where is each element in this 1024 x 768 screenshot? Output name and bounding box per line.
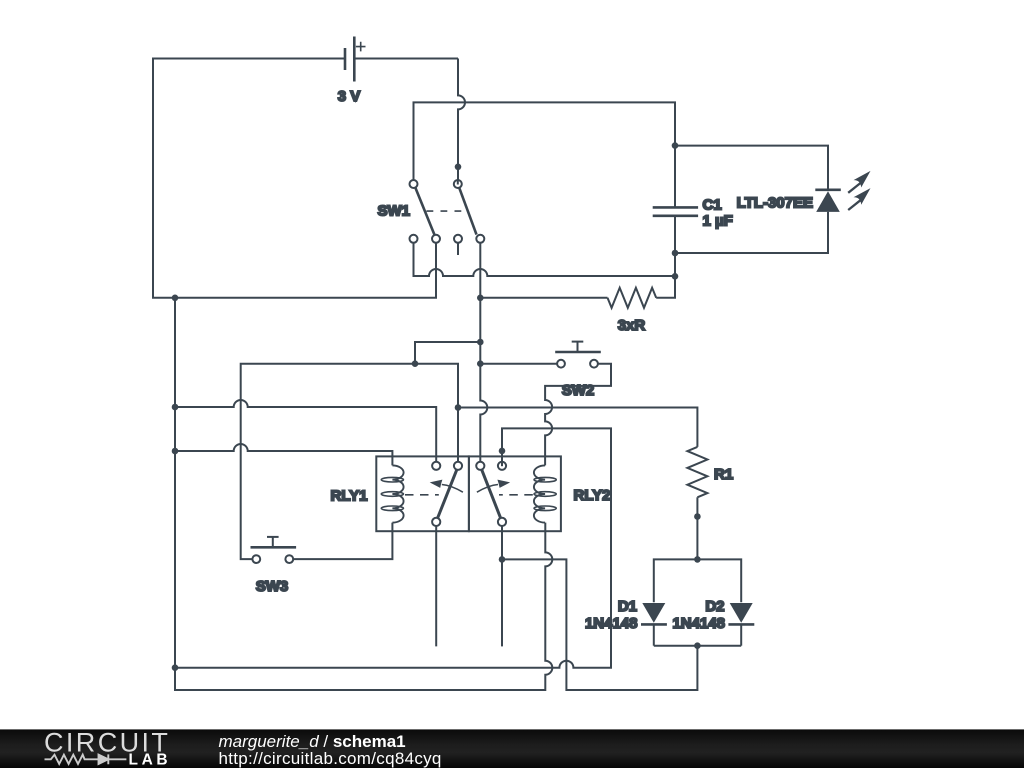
relay RLY1 box — [376, 456, 469, 531]
node dot SW1 throw1 net / resistor lead — [672, 273, 679, 280]
wire R1 feed from net dot — [458, 408, 697, 447]
wire RLY1 bottom contact stub — [435, 526, 437, 647]
wire C1 top to LED top — [675, 146, 828, 189]
svg-text:http://circuitlab.com/cq84cyq: http://circuitlab.com/cq84cyq — [219, 749, 442, 768]
logo resistor zigzag — [45, 755, 99, 764]
wire net B to SW2 left — [480, 363, 557, 365]
node dot R1 feed junction — [455, 404, 462, 411]
switch SW2 (pushbutton) — [555, 342, 601, 368]
svg-text:1 µF: 1 µF — [703, 213, 733, 230]
wire bottom net from left rail to RLY2 contact2 top (hop over x566.4) — [175, 428, 611, 667]
svg-text:RLY2: RLY2 — [574, 487, 611, 504]
relay RLY1 contacts — [405, 462, 463, 526]
wire LED bottom to C1 bottom — [675, 212, 828, 253]
diode D2 1N4148 — [728, 603, 754, 646]
wire battery down to SW1 right pole (hop over y101) — [458, 59, 465, 181]
node dot at SW2 feed junction — [477, 360, 484, 367]
wire left rail to RLY1 contact1 (hop over x240.7) — [175, 400, 436, 462]
wire SW3 right to RLY1 coil bottom — [293, 523, 392, 560]
switch SW1 (DPDT) — [410, 180, 485, 243]
wire RLY2 bottom contact stub — [501, 526, 503, 647]
node dot RLY2 contact2 junction — [499, 448, 506, 455]
svg-text:SW1: SW1 — [377, 203, 410, 220]
wire diode pair frame top — [654, 559, 741, 602]
node dot left rail / bottom net — [172, 664, 179, 671]
wire SW1 throw4 down to RLY2 contact (net B) — [480, 243, 487, 462]
node dot left rail / RLY1 contact feed — [172, 404, 179, 411]
svg-text:RLY1: RLY1 — [331, 488, 368, 505]
svg-text:LAB: LAB — [129, 752, 172, 768]
node dot below R1 — [694, 513, 701, 520]
diode D1 1N4148 — [641, 603, 667, 646]
node dot C1 top / LED net — [672, 142, 679, 149]
node dot diode pair top — [694, 556, 701, 563]
node dot left rail / battery return — [172, 295, 179, 302]
relay RLY2 coil — [534, 465, 556, 522]
wire SW2 right down to RLY2 coil top (hops over y407,y428.5) — [545, 364, 611, 466]
LED LTL-307EE — [815, 171, 870, 253]
relay RLY2 box — [469, 456, 561, 531]
resistor R1 — [687, 447, 707, 560]
svg-text:3 V: 3 V — [338, 88, 361, 105]
wire left rail: battery minus junction down to bottom left and to RLY2 coil bottom — [175, 298, 552, 690]
relay RLY1 coil — [381, 465, 403, 522]
node dot on battery wire — [455, 164, 462, 171]
svg-text:LTL-307EE: LTL-307EE — [737, 195, 813, 212]
svg-text:D2: D2 — [705, 598, 724, 615]
wire SW1 throw1 down and right to C1 bottom net (hops over x436,x480) — [414, 243, 676, 277]
node dot diode pair bottom — [694, 642, 701, 649]
node dot C1 bottom / LED return — [672, 250, 679, 257]
svg-text:SW2: SW2 — [562, 382, 595, 399]
wire battery left loop to SW1 throw2 — [153, 59, 436, 298]
wire left rail to RLY1 coil top (hop over x240.7) — [175, 444, 392, 465]
wire SW1 throw3 stub — [457, 242, 459, 255]
wire link net B upper — [415, 342, 480, 364]
node dot link wire lower junction — [412, 360, 419, 367]
node dot RLY2 bottom contact junction — [499, 556, 506, 563]
svg-text:SW3: SW3 — [256, 578, 289, 595]
node dot at link wire junction — [477, 339, 484, 346]
capacitor C1 1uF — [653, 146, 698, 216]
node dot at resistor 3xR left lead junction — [477, 295, 484, 302]
wire diode pair frame bottom and return to RLY2 contact bottom — [502, 559, 741, 690]
node dot left rail / RLY1 coil feed — [172, 448, 179, 455]
svg-text:C1: C1 — [703, 197, 722, 214]
wire SW1 left pole up and top line to C1 net — [414, 102, 676, 180]
switch SW3 (pushbutton) — [251, 537, 297, 563]
svg-text:D1: D1 — [618, 598, 637, 615]
svg-text:3xR: 3xR — [618, 317, 646, 334]
logo diode — [99, 754, 127, 764]
wire C1 bottom column down to resistor lead — [674, 216, 676, 298]
svg-text:R1: R1 — [714, 466, 733, 483]
resistor 3xR — [480, 216, 675, 308]
battery V1 3V — [345, 37, 458, 82]
svg-text:1N4148: 1N4148 — [672, 615, 725, 632]
relay RLY2 contacts — [476, 462, 533, 526]
wire SW3 left up over and to RLY1 contact2 — [241, 364, 458, 559]
